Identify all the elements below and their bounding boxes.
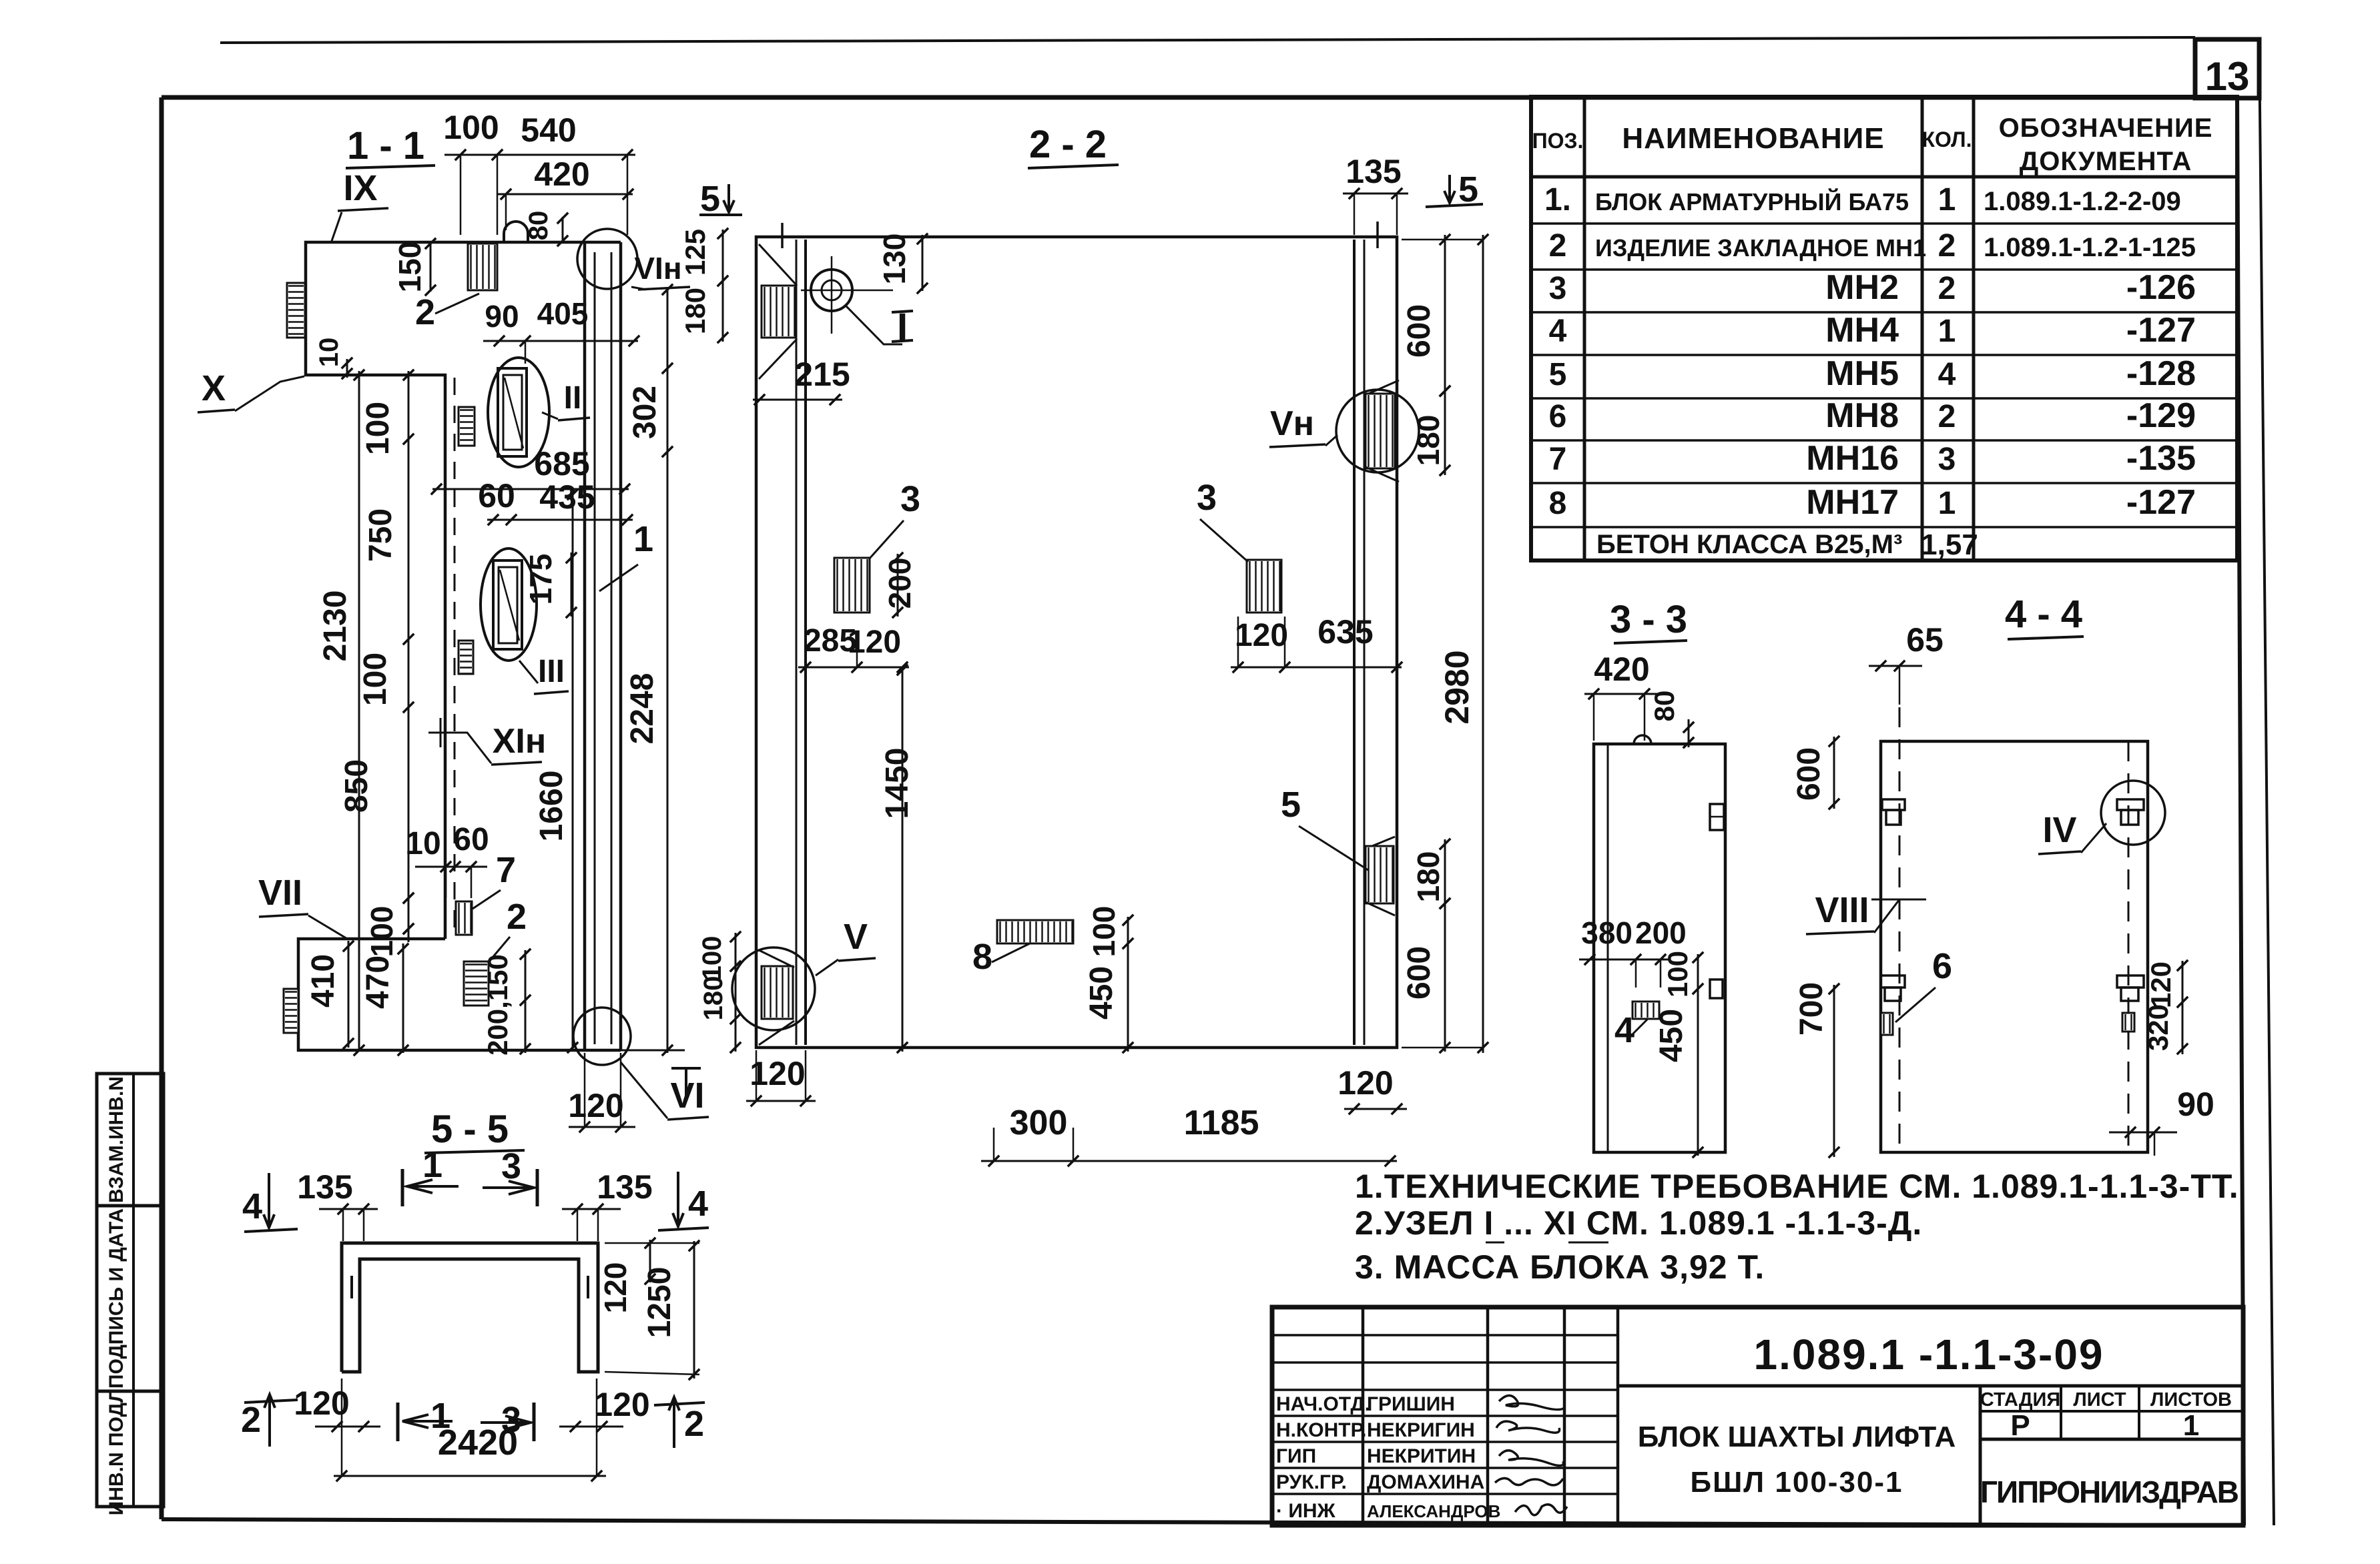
lower right embedded plate pair [2117,975,2144,988]
svg-text:2130: 2130 [318,591,353,662]
sheet top edge line [220,37,2195,43]
svg-text:2420: 2420 [438,1423,518,1463]
svg-text:ГИП: ГИП [1276,1445,1316,1467]
svg-text:2: 2 [1549,228,1567,264]
svg-text:БШЛ 100-30-1: БШЛ 100-30-1 [1690,1466,1903,1499]
svg-text:VIн: VIн [634,251,681,286]
svg-text:2: 2 [684,1404,704,1444]
svg-text:ГИПРОНИИЗДРАВ: ГИПРОНИИЗДРАВ [1980,1475,2239,1509]
svg-text:100: 100 [1087,906,1121,957]
svg-text:1.089.1-1.2-2-09: 1.089.1-1.2-2-09 [1984,187,2181,216]
svg-text:III: III [538,654,565,689]
detail circle IV [2101,781,2165,845]
svg-text:470: 470 [360,955,396,1009]
svg-text:КОЛ.: КОЛ. [1922,127,1972,151]
svg-text:420: 420 [1594,651,1649,688]
svg-text:IX: IX [343,168,377,208]
svg-text:450: 450 [1654,1009,1689,1062]
svg-text:600: 600 [1402,304,1437,358]
embedded channel Vн patch [1366,380,1399,395]
svg-text:850: 850 [339,759,374,813]
title block signature squiggles [1499,1395,1564,1409]
svg-text:635: 635 [1317,613,1373,651]
svg-text:8: 8 [1549,486,1567,521]
svg-text:125: 125 [679,229,711,276]
svg-text:-127: -127 [2126,483,2196,522]
svg-text:НЕКРИТИН: НЕКРИТИН [1367,1445,1476,1467]
embedded plate V left wall bottom [759,950,794,967]
svg-text:180: 180 [1411,415,1446,466]
svg-text:8: 8 [972,937,992,977]
svg-text:200,150: 200,150 [482,954,513,1056]
small plate on pocket edge (upper) [459,407,475,446]
svg-text:НАЧ.ОТД.: НАЧ.ОТД. [1276,1393,1370,1415]
detail circle V [732,947,815,1030]
section 2-2 left wall inner face lines [796,240,798,1045]
svg-text:200: 200 [882,558,917,609]
svg-text:100: 100 [443,109,499,146]
svg-text:4 - 4: 4 - 4 [2005,593,2082,636]
svg-text:НАИМЕНОВАНИЕ: НАИМЕНОВАНИЕ [1622,122,1884,155]
svg-text:3. МАССА БЛОКА 3,92 Т.: 3. МАССА БЛОКА 3,92 Т. [1355,1248,1765,1286]
svg-text:ПОДПИСЬ И ДАТА: ПОДПИСЬ И ДАТА [105,1208,127,1389]
svg-text:65: 65 [1906,621,1944,659]
svg-text:МН8: МН8 [1825,396,1899,435]
svg-text:1.089.1 -1.1-3-09: 1.089.1 -1.1-3-09 [1754,1330,2104,1379]
embedded plate 8 [997,920,1073,943]
svg-text:ПОЗ.: ПОЗ. [1532,129,1584,153]
svg-text:3: 3 [1938,442,1956,477]
embedded plate in left notch (top) [287,283,305,338]
detail circle Vн right wall top [1336,390,1419,472]
svg-text:XIн: XIн [493,722,547,761]
centering tick on left wall top [781,223,784,248]
svg-text:НЕКРИГИН: НЕКРИГИН [1367,1419,1475,1441]
upper right embedded plate pair in circle IV [2117,799,2144,810]
section 4-4 outline [1881,741,2148,1152]
embedded plate 2 lower [464,961,489,1006]
svg-text:300: 300 [1010,1104,1068,1142]
drawing frame right inner border [2237,97,2244,1525]
svg-text:ОБОЗНАЧЕНИЕ: ОБОЗНАЧЕНИЕ [1999,113,2213,143]
svg-text:100: 100 [358,653,393,706]
svg-text:-128: -128 [2126,354,2196,393]
svg-text:80: 80 [524,211,553,241]
svg-text:Vн: Vн [1270,404,1314,443]
svg-text:215: 215 [794,356,850,393]
svg-text:10: 10 [405,826,440,861]
lower left small plate 6 [1881,1013,1893,1035]
embedded plate 5 right wall [1366,837,1395,849]
svg-text:5: 5 [1281,785,1301,825]
svg-text:ВЗАМ.ИНВ.N: ВЗАМ.ИНВ.N [105,1076,127,1203]
svg-text:2248: 2248 [625,673,660,745]
svg-text:7: 7 [1549,442,1567,477]
svg-text:750: 750 [363,508,398,562]
left stamp box ВЗАМ.ИНВ.N [97,1074,164,1206]
svg-text:540: 540 [521,111,576,149]
svg-text:435: 435 [539,478,595,516]
small plate on pocket edge (middle) [459,641,473,674]
svg-text:5: 5 [700,179,720,219]
upper left embedded plate pair [1882,799,1905,810]
title block section divider vertical [1979,1386,1982,1525]
parts table outer grid [1531,97,2237,560]
svg-text:120: 120 [1235,618,1288,653]
embedded item 2 on top edge [468,244,497,290]
svg-text:4: 4 [1614,1010,1634,1050]
svg-text:1: 1 [422,1145,442,1185]
section 4-4 left hidden line [1899,707,1901,1152]
svg-text:685: 685 [534,445,589,482]
svg-text:60: 60 [478,477,515,514]
plate on right edge lower [1710,980,1723,998]
svg-text:100: 100 [697,936,727,981]
svg-text:600: 600 [1402,946,1437,1000]
svg-text:302: 302 [627,386,663,439]
svg-text:180: 180 [699,976,728,1021]
svg-text:МН4: МН4 [1825,311,1899,350]
svg-text:-126: -126 [2126,268,2196,307]
title block left column lines [1362,1307,1365,1525]
svg-text:410: 410 [306,954,341,1008]
svg-text:МН16: МН16 [1806,439,1899,478]
svg-text:120: 120 [750,1055,805,1092]
section 1-1 upper block outline [306,242,621,939]
svg-text:1: 1 [2183,1409,2199,1442]
lifting hook on top edge [504,222,528,242]
svg-text:3: 3 [1549,271,1567,306]
svg-text:1.ТЕХНИЧЕСКИЕ ТРЕБОВАНИЕ СМ: 1.ТЕХНИЧЕСКИЕ ТРЕБОВАНИЕ СМ. 1.089.1-1.1… [1355,1168,2239,1205]
svg-text:МН5: МН5 [1825,354,1899,393]
section 2-2 right wall inner face lines [1353,240,1356,1045]
svg-text:1: 1 [1938,182,1956,218]
section 4-4 right hidden line [2128,741,2130,1152]
svg-text:4: 4 [688,1184,708,1224]
svg-text:3: 3 [1197,478,1217,518]
svg-text:1,57: 1,57 [1921,528,1978,561]
svg-text:2: 2 [1938,399,1956,434]
svg-text:-127: -127 [2126,311,2196,350]
section 1-1 lower block outline [298,939,621,1050]
svg-text:БЛОК ШАХТЫ ЛИФТА: БЛОК ШАХТЫ ЛИФТА [1638,1421,1956,1453]
svg-text:60: 60 [453,822,489,857]
lower right small plate [2122,1013,2134,1032]
svg-text:150: 150 [392,242,427,293]
svg-text:БЕТОН КЛАССА В25,М³: БЕТОН КЛАССА В25,М³ [1596,530,1902,559]
svg-text:· ИНЖ: · ИНЖ [1276,1500,1336,1522]
embedded item III oval detail [481,548,537,661]
drawing frame left border [160,97,164,1519]
svg-text:1.089.1-1.2-1-125: 1.089.1-1.2-1-125 [1984,233,2196,262]
svg-text:135: 135 [1346,153,1401,190]
svg-text:6: 6 [1549,399,1567,434]
svg-text:2: 2 [1938,271,1956,306]
section 3-3 inner wall line [1607,744,1609,1152]
svg-text:ГРИШИН: ГРИШИН [1367,1393,1455,1415]
svg-text:320: 320 [2142,1004,2174,1051]
svg-text:450: 450 [1084,966,1119,1020]
section 1-1 hidden edge dashed [454,378,456,934]
section cut mark 1 below left wall [671,1067,701,1070]
embedded plate 3 right [1247,560,1281,613]
svg-text:6: 6 [1932,946,1952,986]
detail circle VI on column bottom [573,1008,631,1065]
lifting loop section I circles [811,270,852,311]
section 1-1 wall column outer edges [583,242,587,1050]
title block designation divider [1618,1385,2243,1388]
svg-text:ЛИСТОВ: ЛИСТОВ [2150,1389,2232,1411]
svg-text:4: 4 [1938,357,1956,392]
svg-text:380: 380 [1581,915,1632,950]
svg-text:Р: Р [2010,1409,2030,1442]
svg-text:5: 5 [1549,357,1567,392]
svg-text:135: 135 [597,1168,652,1206]
svg-text:-135: -135 [2126,439,2196,478]
embedded plate 4 [1632,1002,1659,1019]
svg-text:БЛОК АРМАТУРНЫЙ БА75: БЛОК АРМАТУРНЫЙ БА75 [1595,187,1909,216]
svg-text:1660: 1660 [534,771,569,842]
title block outer frame [1272,1307,2243,1525]
left stamp box ПОДПИСЬ И ДАТА [97,1206,164,1391]
svg-text:VII: VII [258,873,302,913]
svg-text:3 - 3: 3 - 3 [1610,598,1687,641]
svg-text:2: 2 [1938,228,1956,264]
svg-text:1250: 1250 [642,1267,677,1338]
embedded plate 3 left [834,558,870,613]
drawing frame bottom border [162,1519,2244,1525]
svg-text:II: II [564,380,582,416]
svg-text:80: 80 [1649,691,1680,722]
section 3-3 outline [1594,744,1725,1152]
svg-text:3: 3 [900,479,920,519]
svg-text:ИНВ.N ПОДЛ.: ИНВ.N ПОДЛ. [105,1383,127,1516]
svg-text:175: 175 [523,554,558,605]
leader and label 2 (МН1) [435,294,479,314]
svg-text:180: 180 [1411,851,1446,903]
left stamp box ИНВ.N ПОДЛ. [97,1391,164,1507]
detail circle VIн on column top [577,229,637,289]
svg-text:1: 1 [1938,314,1956,349]
svg-text:120: 120 [594,1386,649,1423]
svg-text:90: 90 [485,299,519,334]
svg-text:2.УЗЕЛ I ... XI СМ. 1.089.: 2.УЗЕЛ I ... XI СМ. 1.089.1 -1.1-3-Д. [1355,1204,1922,1242]
rebar mark left leg [350,1276,353,1298]
svg-text:2: 2 [241,1400,261,1440]
section 2-2 panel outline [756,237,1397,1048]
svg-text:ЛИСТ: ЛИСТ [2073,1389,2126,1411]
svg-text:ИЗДЕЛИЕ ЗАКЛАДНОЕ МН1: ИЗДЕЛИЕ ЗАКЛАДНОЕ МН1 [1595,234,1926,262]
svg-text:100: 100 [1662,951,1693,998]
svg-text:420: 420 [534,155,589,193]
svg-text:135: 135 [297,1168,352,1206]
lower left embedded plate pair [1881,975,1905,988]
svg-text:IV: IV [2042,810,2076,850]
svg-text:120: 120 [598,1262,633,1314]
svg-text:ДОКУМЕНТА: ДОКУМЕНТА [2020,147,2192,176]
svg-text:120: 120 [568,1087,623,1124]
embedded plate in left notch (bottom) [284,989,298,1033]
svg-text:1: 1 [1938,486,1956,521]
svg-text:120: 120 [2145,961,2176,1008]
svg-text:600: 600 [1791,747,1827,801]
svg-text:2 - 2: 2 - 2 [1029,123,1107,166]
left wall top chamfer [759,244,797,286]
svg-text:-129: -129 [2126,396,2196,435]
svg-text:5 - 5: 5 - 5 [431,1108,509,1151]
svg-text:13: 13 [2205,54,2250,99]
svg-text:4: 4 [242,1186,262,1226]
svg-text:СТАДИЯ: СТАДИЯ [1980,1389,2060,1411]
svg-text:130: 130 [877,234,912,285]
left wall top lower chamfer [759,339,797,379]
plate on right edge upper [1710,804,1724,830]
svg-text:405: 405 [537,296,589,331]
block armature 1 inner lines [594,252,596,1044]
embedded plate 7 [456,901,472,935]
svg-text:1185: 1185 [1184,1104,1259,1142]
rebar mark right leg [587,1276,589,1298]
centering tick on top edge [1376,222,1379,248]
title block СТАДИЯ ЛИСТ ЛИСТОВ grid [1980,1410,2243,1413]
svg-text:2: 2 [415,292,435,332]
svg-text:РУК.ГР.: РУК.ГР. [1276,1471,1347,1493]
svg-text:90: 90 [2177,1086,2214,1123]
page number box [2195,39,2259,98]
drawing frame top border [162,95,2237,100]
svg-text:2980: 2980 [1438,650,1476,724]
svg-text:1 - 1: 1 - 1 [347,124,424,167]
svg-text:МН17: МН17 [1806,483,1899,522]
svg-text:АЛЕКСАНДРОВ: АЛЕКСАНДРОВ [1367,1501,1500,1521]
embedded item II oval detail [488,358,549,467]
svg-text:VIII: VIII [1815,890,1869,930]
svg-text:1: 1 [633,519,653,559]
svg-text:1.: 1. [1544,182,1571,218]
svg-text:700: 700 [1794,982,1829,1036]
svg-text:10: 10 [314,338,344,368]
section 1-1 bottom edge extension [621,1050,685,1052]
svg-text:ДОМАХИНА: ДОМАХИНА [1367,1471,1484,1493]
svg-text:100: 100 [364,906,399,957]
svg-text:X: X [202,368,226,408]
svg-text:МН2: МН2 [1825,268,1899,307]
svg-text:V: V [844,917,868,957]
svg-text:Н.КОНТР.: Н.КОНТР. [1276,1419,1366,1441]
svg-text:7: 7 [496,850,516,890]
svg-text:2: 2 [507,897,527,937]
svg-text:200: 200 [1635,915,1687,950]
svg-text:180: 180 [679,288,711,334]
svg-text:120: 120 [1337,1064,1393,1102]
svg-text:100: 100 [360,402,396,455]
section 3-3 lifting loop [1634,735,1651,744]
embedded channel МН in left wall top [762,286,796,338]
sheet outer right edge line [2259,40,2274,1525]
channel block 5-5 outline [342,1243,598,1372]
svg-text:4: 4 [1549,314,1567,349]
svg-text:120: 120 [848,625,901,660]
svg-text:1450: 1450 [880,748,915,819]
